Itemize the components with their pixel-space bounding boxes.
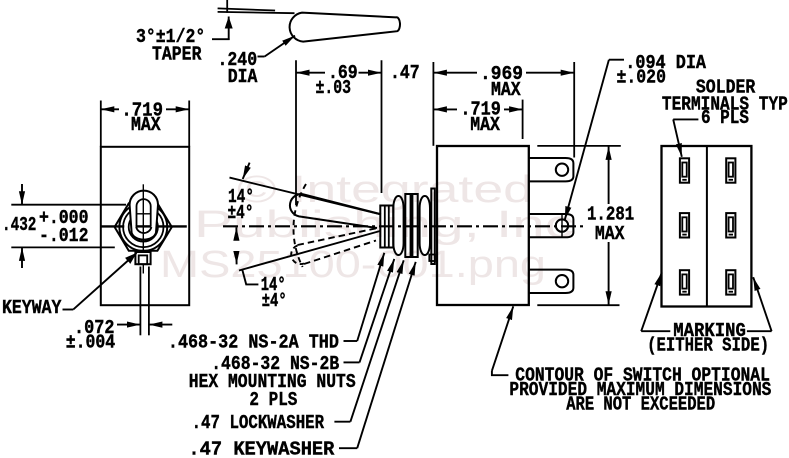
leader 6 pls (673, 118, 698, 120)
threaded bushing side (380, 206, 393, 248)
taper tick (226, 0, 228, 13)
svg-text:MAX: MAX (131, 115, 161, 137)
svg-text:.432: .432 (2, 215, 36, 237)
svg-text:MAX: MAX (491, 80, 521, 102)
svg-text:TAPER: TAPER (152, 44, 202, 66)
label 14 bottom leader (242, 270, 258, 285)
leader keywasher (339, 447, 357, 449)
solder terminal r2c2 (726, 213, 735, 237)
solder terminal r1c1 (680, 158, 689, 182)
dim .719 left ext lines (100, 101, 102, 147)
svg-text:1.281: 1.281 (587, 204, 634, 226)
svg-text:±4°: ±4° (228, 203, 254, 225)
lever detail outline (top view of toggle bat) (290, 13, 400, 42)
hex mounting nut 2 side (420, 196, 430, 255)
bushing circle inner (129, 212, 158, 241)
front horizontal centerline segs (101, 225, 125, 227)
leader lockwasher (334, 421, 350, 423)
angle arrows vertical pair (235, 227, 237, 240)
dim .69 ext line right (381, 60, 383, 193)
angle line B lower (239, 231, 380, 271)
svg-text:MS25100-001.png: MS25100-001.png (160, 244, 546, 286)
dim 1.281 ext lines (537, 145, 621, 147)
svg-text:.47 LOCKWASHER: .47 LOCKWASHER (192, 413, 325, 435)
svg-text:MAX: MAX (470, 115, 500, 137)
dim .432 arrows (21, 184, 23, 205)
lever down dashed tip arc (291, 246, 304, 265)
dim .969 arrows (433, 72, 477, 74)
svg-text:MAX: MAX (595, 224, 625, 246)
keywasher side (431, 189, 435, 265)
solder terminal r3c2 (726, 270, 735, 294)
svg-text:.47: .47 (390, 63, 420, 85)
marking leader left (641, 330, 670, 332)
bushing circle outer (119, 203, 167, 251)
toggle lever front inner line (137, 199, 151, 226)
svg-text:DIA: DIA (228, 67, 258, 89)
lever side solid (290, 194, 380, 228)
washer 1 side (405, 194, 410, 257)
svg-text:±.020: ±.020 (617, 67, 666, 89)
lever sweep dashed arc (293, 184, 306, 267)
taper leader elbow (212, 38, 230, 40)
dim .69 ext line left (295, 60, 297, 205)
keyway slot (135, 252, 150, 264)
terminal lug 1 (529, 158, 574, 181)
lever down dashed lower edge (304, 241, 376, 265)
leader NS-2A THD (344, 340, 358, 342)
marking leader right (747, 330, 772, 332)
terminal lug 2 (529, 214, 574, 237)
leader .240 dia (258, 56, 265, 58)
svg-text:-.012: -.012 (39, 226, 88, 248)
svg-text:±.03: ±.03 (316, 78, 352, 100)
lug 2 hole tick (561, 215, 563, 237)
dim 1.281 arrows (608, 146, 610, 204)
dim .69 arrows (296, 72, 325, 74)
hex mounting nut 1 side (393, 196, 403, 255)
svg-text:±.004: ±.004 (66, 332, 116, 354)
front view panel rect (101, 147, 189, 305)
taper dim arrow (228, 17, 230, 41)
bushing circle middle (123, 207, 163, 247)
switch body side view (437, 146, 529, 305)
front vertical centerline (142, 184, 144, 273)
leader NS-2B nuts (344, 361, 360, 363)
toggle lever front inner smile (136, 227, 151, 233)
dim .072 arrows (117, 324, 140, 326)
angle line A upper (230, 178, 382, 215)
dim .719 left arrows (101, 108, 119, 110)
keywasher tab (429, 255, 435, 262)
taper reference line upper (218, 8, 276, 10)
keyway leader (63, 309, 74, 311)
svg-text:±4°: ±4° (262, 291, 287, 313)
rear view mid line (706, 146, 708, 307)
svg-text:KEYWAY: KEYWAY (2, 298, 61, 320)
terminal lug 3 (529, 270, 574, 293)
contour leader (492, 371, 509, 375)
rear view rect (662, 146, 752, 307)
washer 2 side (412, 194, 417, 257)
svg-text:.47 KEYWASHER: .47 KEYWASHER (188, 439, 334, 458)
front centerline tick (137, 213, 152, 215)
solder terminal r3c1 (680, 270, 689, 294)
dim .719 right arrows (433, 108, 457, 110)
taper reference line lower (218, 12, 295, 13)
leader .094 dia (609, 59, 624, 61)
lever down dashed upper edge (298, 228, 381, 246)
solder terminal r1c2 (726, 158, 735, 182)
toggle lever front (130, 191, 158, 240)
svg-text:2 PLS: 2 PLS (249, 390, 297, 412)
solder terminal r2c1 (680, 213, 689, 237)
svg-text:(EITHER SIDE): (EITHER SIDE) (647, 335, 769, 357)
bushing hex nut front (115, 203, 172, 251)
svg-text:6 PLS: 6 PLS (701, 108, 749, 130)
side view centerline dash-dot (223, 225, 585, 227)
svg-text:ARE NOT EXCEEDED: ARE NOT EXCEEDED (566, 394, 715, 416)
dim .969 ext lines (432, 62, 434, 146)
dim .072 ext lines (139, 267, 141, 336)
svg-text:.468-32 NS-2A THD: .468-32 NS-2A THD (168, 332, 339, 354)
angle 14 top arrow (243, 163, 250, 179)
dim .432 ext lines (11, 204, 126, 206)
dim .719 right ext line (522, 100, 524, 139)
